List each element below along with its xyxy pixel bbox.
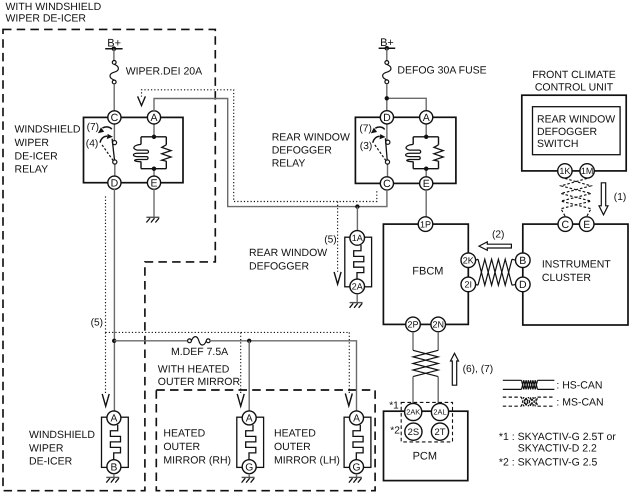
svg-text:DEFOGGER: DEFOGGER (272, 145, 333, 157)
relay coil and resistor (defogger relay) (406, 124, 444, 177)
label: REAR WINDOW DEFOGGER RELAY (272, 131, 350, 169)
caption: FRONT CLIMATE CONTROL UNIT (532, 69, 616, 94)
svg-text:D: D (519, 279, 527, 291)
wire relay D to switch contact (386, 124, 388, 140)
component: heated outer mirror RH (terminals A/G) (237, 411, 264, 474)
dashed option box: with heated outer mirror (156, 390, 375, 491)
svg-text:DEFOGGER: DEFOGGER (537, 126, 598, 138)
svg-text:MIRROR (LH): MIRROR (LH) (274, 454, 340, 466)
svg-text:(7): (7) (359, 124, 371, 135)
svg-text:(2): (2) (492, 229, 504, 240)
svg-text:RELAY: RELAY (15, 163, 49, 175)
svg-text:DE-ICER: DE-ICER (15, 150, 59, 162)
svg-text:FRONT CLIMATE: FRONT CLIMATE (532, 69, 616, 81)
svg-text:RELAY: RELAY (272, 158, 306, 170)
switch (wiper de-icer relay) (102, 139, 117, 164)
component: windshield wiper de-icer (terminals A/B) (102, 411, 129, 474)
terminal 2P (FBCM) (406, 317, 421, 332)
wire junction to M.DEF fuse (114, 340, 187, 342)
svg-text:DEFOGGER: DEFOGGER (249, 260, 310, 272)
dotted signal path: defogger relay C to wiper relay A (142, 90, 377, 202)
note marker *1 (PCM terminals) (389, 400, 399, 411)
terminal C (wiper relay) (108, 111, 121, 124)
svg-text:B: B (110, 462, 117, 473)
svg-text:A: A (110, 414, 117, 425)
note marker *2 (PCM terminals) (390, 426, 400, 437)
label (5) at de-icer feed (91, 318, 103, 329)
svg-text:OUTER MIRROR: OUTER MIRROR (158, 376, 241, 388)
svg-text:INSTRUMENT: INSTRUMENT (542, 259, 611, 271)
svg-text:C: C (111, 112, 119, 124)
inner box: rear window defogger switch (533, 107, 621, 155)
wire fuse to relay terminal C (113, 84, 115, 111)
terminal 2A (rear window defogger) (350, 279, 365, 294)
HS-CAN twisted pair FBCM 2P/2N to PCM (413, 332, 438, 403)
label: REAR WINDOW DEFOGGER (249, 247, 327, 272)
fuse M.DEF 7.5A (171, 337, 228, 358)
svg-text:SKYACTIV-D 2.2: SKYACTIV-D 2.2 (518, 442, 597, 454)
terminal 2AL (PCM) (431, 403, 448, 420)
dotted signal branch to rear window defogger (337, 202, 339, 272)
terminal C (defogger relay) (380, 177, 393, 190)
svg-text:(4): (4) (86, 138, 98, 149)
relay coil and resistor (wiper de-icer relay) (133, 124, 171, 177)
terminal A (defogger relay) (420, 111, 433, 124)
svg-text:(6), (7): (6), (7) (463, 364, 494, 375)
svg-text:*2 : SKYACTIV-G 2.5: *2 : SKYACTIV-G 2.5 (499, 457, 598, 469)
svg-text:(3): (3) (360, 141, 372, 152)
dotted signal path: wiper relay D down (105, 196, 107, 332)
svg-text:CLUSTER: CLUSTER (542, 272, 591, 284)
wire relay C to switch contact (113, 124, 115, 141)
module box: PCM (384, 411, 468, 480)
hollow arrow (6),(7) (451, 353, 494, 385)
terminal E (wiper relay) (147, 176, 160, 189)
note *1: SKYACTIV-G 2.5T or SKYACTIV-D 2.2 (499, 431, 616, 454)
svg-text:2AK: 2AK (406, 408, 420, 417)
terminal D (instrument cluster) (516, 277, 531, 292)
label: WINDSHIELD WIPER DE-ICER (29, 429, 95, 468)
ground (heated outer mirror LH) (349, 474, 362, 483)
svg-text:1A: 1A (352, 233, 363, 243)
svg-text:2N: 2N (432, 320, 444, 330)
svg-text:OUTER: OUTER (274, 441, 311, 453)
svg-text:D: D (383, 112, 391, 124)
HS-CAN twisted pair FBCM 2K/2I to cluster B/D (476, 259, 516, 285)
svg-text:G: G (245, 462, 253, 473)
caption: WITH HEATED OUTER MIRROR (158, 363, 241, 388)
svg-text:2T: 2T (435, 426, 446, 437)
svg-text:(5): (5) (91, 318, 103, 329)
dashed terminal group box (PCM) (401, 402, 452, 442)
wire switch to relay C (387, 164, 389, 177)
annotation arrow (4) wiper relay (86, 134, 113, 150)
svg-text:REAR WINDOW: REAR WINDOW (249, 247, 327, 259)
svg-text:(7): (7) (87, 122, 99, 133)
component: heated outer mirror LH (terminals A/G) (344, 411, 371, 474)
terminal 2S (PCM) (405, 423, 422, 440)
svg-text:WIPER.DEI 20A: WIPER.DEI 20A (126, 66, 202, 78)
svg-text:M.DEF 7.5A: M.DEF 7.5A (171, 346, 228, 358)
dotted arrow into wiper relay A (138, 96, 146, 105)
svg-text:*2: *2 (390, 426, 400, 437)
wire junction to defogger grid 1A (356, 207, 358, 231)
ground (windshield wiper de-icer) (106, 474, 119, 483)
annotation arrow (7) wiper relay (87, 122, 112, 133)
dotted branch to heated mirror LH (348, 332, 350, 393)
wire defogger relay E to FBCM 1P (425, 190, 427, 217)
svg-text:WINDSHIELD: WINDSHIELD (15, 124, 81, 136)
terminal 2K (FBCM) (461, 253, 476, 268)
dashed option box: with windshield wiper de-icer (3, 29, 215, 490)
svg-text:D: D (111, 177, 119, 189)
svg-text:FBCM: FBCM (412, 266, 443, 278)
ground (wiper relay E) (146, 217, 159, 222)
svg-text:A: A (423, 112, 430, 124)
svg-text:*1 : SKYACTIV-G 2.5T or: *1 : SKYACTIV-G 2.5T or (499, 431, 616, 443)
wire defogger relay C to wiper relay A (154, 99, 387, 207)
terminal B (instrument cluster) (516, 253, 531, 268)
label: HEATED OUTER MIRROR (LH) (274, 428, 340, 467)
wire junction to heated mirror RH (248, 341, 250, 411)
caption: WITH WINDSHIELD WIPER DE-ICER (6, 1, 102, 25)
terminal 1K (front climate control unit) (558, 164, 572, 178)
svg-text:DE-ICER: DE-ICER (29, 455, 73, 467)
wire M.DEF fuse to mirrors (210, 341, 356, 411)
relay box: rear window defogger relay (355, 117, 456, 183)
terminal 1P (FBCM) (418, 217, 433, 232)
ground (heated outer mirror RH) (242, 474, 255, 483)
junction node above defogger relay (385, 96, 389, 100)
svg-text:A: A (150, 112, 157, 124)
svg-text:WITH WINDSHIELD: WITH WINDSHIELD (6, 1, 102, 13)
svg-text:2A: 2A (352, 282, 363, 292)
svg-text:REAR WINDOW: REAR WINDOW (272, 131, 350, 143)
svg-text:WIPER: WIPER (15, 137, 50, 149)
svg-text:2AL: 2AL (433, 408, 446, 417)
svg-text:(5): (5) (324, 235, 336, 246)
svg-text:(1): (1) (614, 192, 626, 203)
fuse DEFOG 30A (383, 61, 487, 84)
svg-text:2S: 2S (408, 426, 419, 437)
wire E to ground (153, 189, 155, 217)
annotation arrow (3) defogger relay (360, 134, 386, 152)
dotted arrow into heated mirror RH (237, 394, 244, 406)
junction node (mirror RH) (247, 339, 251, 343)
terminal 1M (front climate control unit) (580, 164, 594, 178)
component box: rear window defogger grid (345, 237, 372, 287)
junction node (de-icer / mirror feed) (112, 339, 116, 343)
svg-text:REAR WINDOW: REAR WINDOW (537, 113, 615, 125)
wire B+ to DEFOG fuse (386, 48, 388, 60)
svg-text:HEATED: HEATED (163, 428, 205, 440)
terminal 2T (PCM) (431, 423, 448, 440)
module box: instrument cluster (523, 224, 628, 325)
svg-text:*1: *1 (389, 400, 399, 411)
svg-text:MIRROR (RH): MIRROR (RH) (163, 454, 231, 466)
label: WINDSHIELD WIPER DE-ICER RELAY (15, 124, 81, 176)
note *2: SKYACTIV-G 2.5 (499, 457, 598, 469)
module box: FBCM (383, 224, 468, 324)
svg-text:A: A (246, 414, 253, 425)
terminal E (defogger relay) (420, 177, 433, 190)
svg-text:SWITCH: SWITCH (537, 138, 578, 150)
svg-text:E: E (583, 219, 590, 231)
terminal 2AK (PCM) (405, 403, 422, 420)
svg-text:OUTER: OUTER (163, 441, 200, 453)
switch (defogger relay) (375, 138, 390, 164)
svg-text:: MS-CAN: : MS-CAN (556, 397, 603, 409)
dotted signal path horizontal to mirrors (106, 331, 350, 333)
legend: HS-CAN symbol (503, 380, 603, 392)
label: HEATED OUTER MIRROR (RH) (163, 428, 231, 467)
svg-text:2K: 2K (463, 255, 474, 265)
MS-CAN twisted pair 1K/1M to cluster C/E (561, 178, 591, 216)
ground (rear window defogger) (350, 303, 363, 308)
terminal 1A (rear window defogger) (350, 231, 365, 246)
terminal 2N (FBCM) (431, 317, 446, 332)
hollow arrow (2) (479, 229, 511, 250)
dotted branch to heated mirror RH (240, 332, 242, 393)
svg-text:WITH HEATED: WITH HEATED (158, 363, 230, 375)
svg-text:A: A (353, 414, 360, 425)
svg-text:2I: 2I (465, 280, 473, 290)
fuse WIPER.DEI 20A (110, 61, 202, 84)
svg-text:PCM: PCM (413, 451, 437, 463)
dotted arrow into windshield wiper de-icer (102, 394, 109, 406)
hollow arrow (1) (599, 183, 626, 215)
svg-text:2P: 2P (407, 320, 418, 330)
svg-text:1P: 1P (420, 219, 431, 229)
dotted arrow into rear window defogger (334, 272, 341, 284)
svg-text:1K: 1K (559, 166, 570, 176)
svg-text:CONTROL UNIT: CONTROL UNIT (535, 81, 614, 93)
terminal 2I (FBCM) (461, 277, 476, 292)
junction node to rear window defogger (355, 204, 359, 208)
label (5) at rear window defogger (324, 235, 336, 246)
svg-text:E: E (150, 177, 157, 189)
module box: front climate control unit (522, 95, 626, 171)
svg-text:DEFOG 30A FUSE: DEFOG 30A FUSE (397, 65, 486, 77)
relay box: windshield wiper de-icer relay (84, 117, 184, 182)
svg-text:WIPER: WIPER (29, 442, 64, 454)
svg-text:E: E (423, 178, 430, 190)
terminal D (defogger relay) (380, 111, 393, 124)
wire B+ to fuse WIPER.DEI (113, 49, 115, 61)
wire switch to relay D (114, 164, 116, 176)
dotted arrow into heated mirror LH (345, 394, 352, 406)
terminal C (instrument cluster) (558, 217, 573, 232)
svg-text:1M: 1M (581, 166, 594, 176)
wire fuse to defogger relay D and A (387, 84, 426, 111)
power symbol B+ (defogger feed) (379, 37, 396, 51)
legend: MS-CAN symbol (503, 397, 604, 409)
annotation arrow (7) defogger relay (359, 124, 384, 135)
svg-text:B: B (519, 255, 526, 267)
wire relay D down to windshield wiper de-icer (113, 189, 115, 411)
svg-text:: HS-CAN: : HS-CAN (556, 380, 602, 392)
svg-text:G: G (352, 462, 360, 473)
power symbol B+ (wiper de-icer feed) (105, 37, 122, 51)
svg-text:WINDSHIELD: WINDSHIELD (29, 429, 95, 441)
wire 2A to ground (356, 294, 358, 303)
terminal E (instrument cluster) (579, 217, 594, 232)
svg-text:WIPER DE-ICER: WIPER DE-ICER (6, 13, 87, 25)
svg-text:C: C (562, 219, 570, 231)
dotted branch to windshield wiper de-icer (105, 332, 107, 393)
svg-text:HEATED: HEATED (274, 428, 316, 440)
svg-text:C: C (383, 178, 391, 190)
terminal A (wiper relay) (147, 111, 160, 124)
terminal D (wiper relay) (108, 176, 121, 189)
